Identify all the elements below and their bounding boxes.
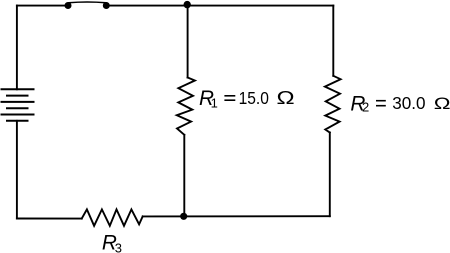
wire left upper (battery to top wire) [16,6,18,90]
resistor R3 zigzag [82,209,143,225]
svg-text:2: 2 [362,100,369,115]
battery B1 plate short 2 [7,107,28,109]
resistor R2 zigzag [325,76,341,133]
switch S1 terminal left [65,2,72,9]
wire middle branch lower lead [183,135,185,217]
wire top from node A to right corner [187,5,333,7]
svg-text:Ω: Ω [277,88,295,108]
resistor R1 zigzag [177,78,195,135]
wire right branch lower lead [329,133,331,217]
switch blade [69,1,107,4]
svg-text:1: 1 [211,96,218,111]
battery B1 plate short 3 [7,120,28,122]
battery B1 plate long 2 [2,101,34,103]
node B junction dot bottom [180,213,187,220]
wire left lower (battery to bottom wire) [16,121,18,219]
label R2 equals sign [376,100,386,107]
wire middle branch upper lead [187,6,189,78]
label R1 equals sign [224,95,235,101]
node A junction dot top [184,1,191,8]
battery B1 plate long 3 [2,114,34,116]
battery B1 plate long 1 [2,88,34,90]
wire bottom right (R3 to right corner) [143,215,330,217]
switch S1 terminal right [103,2,110,9]
wire top from switch to node A [110,5,188,7]
svg-text:30.0: 30.0 [392,93,426,113]
wire top from battery to switch [17,5,65,7]
svg-text:Ω: Ω [434,95,450,114]
wire bottom left (corner to R3) [17,218,82,220]
svg-text:15.0: 15.0 [239,88,269,108]
svg-text:3: 3 [115,241,122,253]
wire right branch upper lead [332,6,334,76]
battery B1 plate short 1 [7,95,28,97]
